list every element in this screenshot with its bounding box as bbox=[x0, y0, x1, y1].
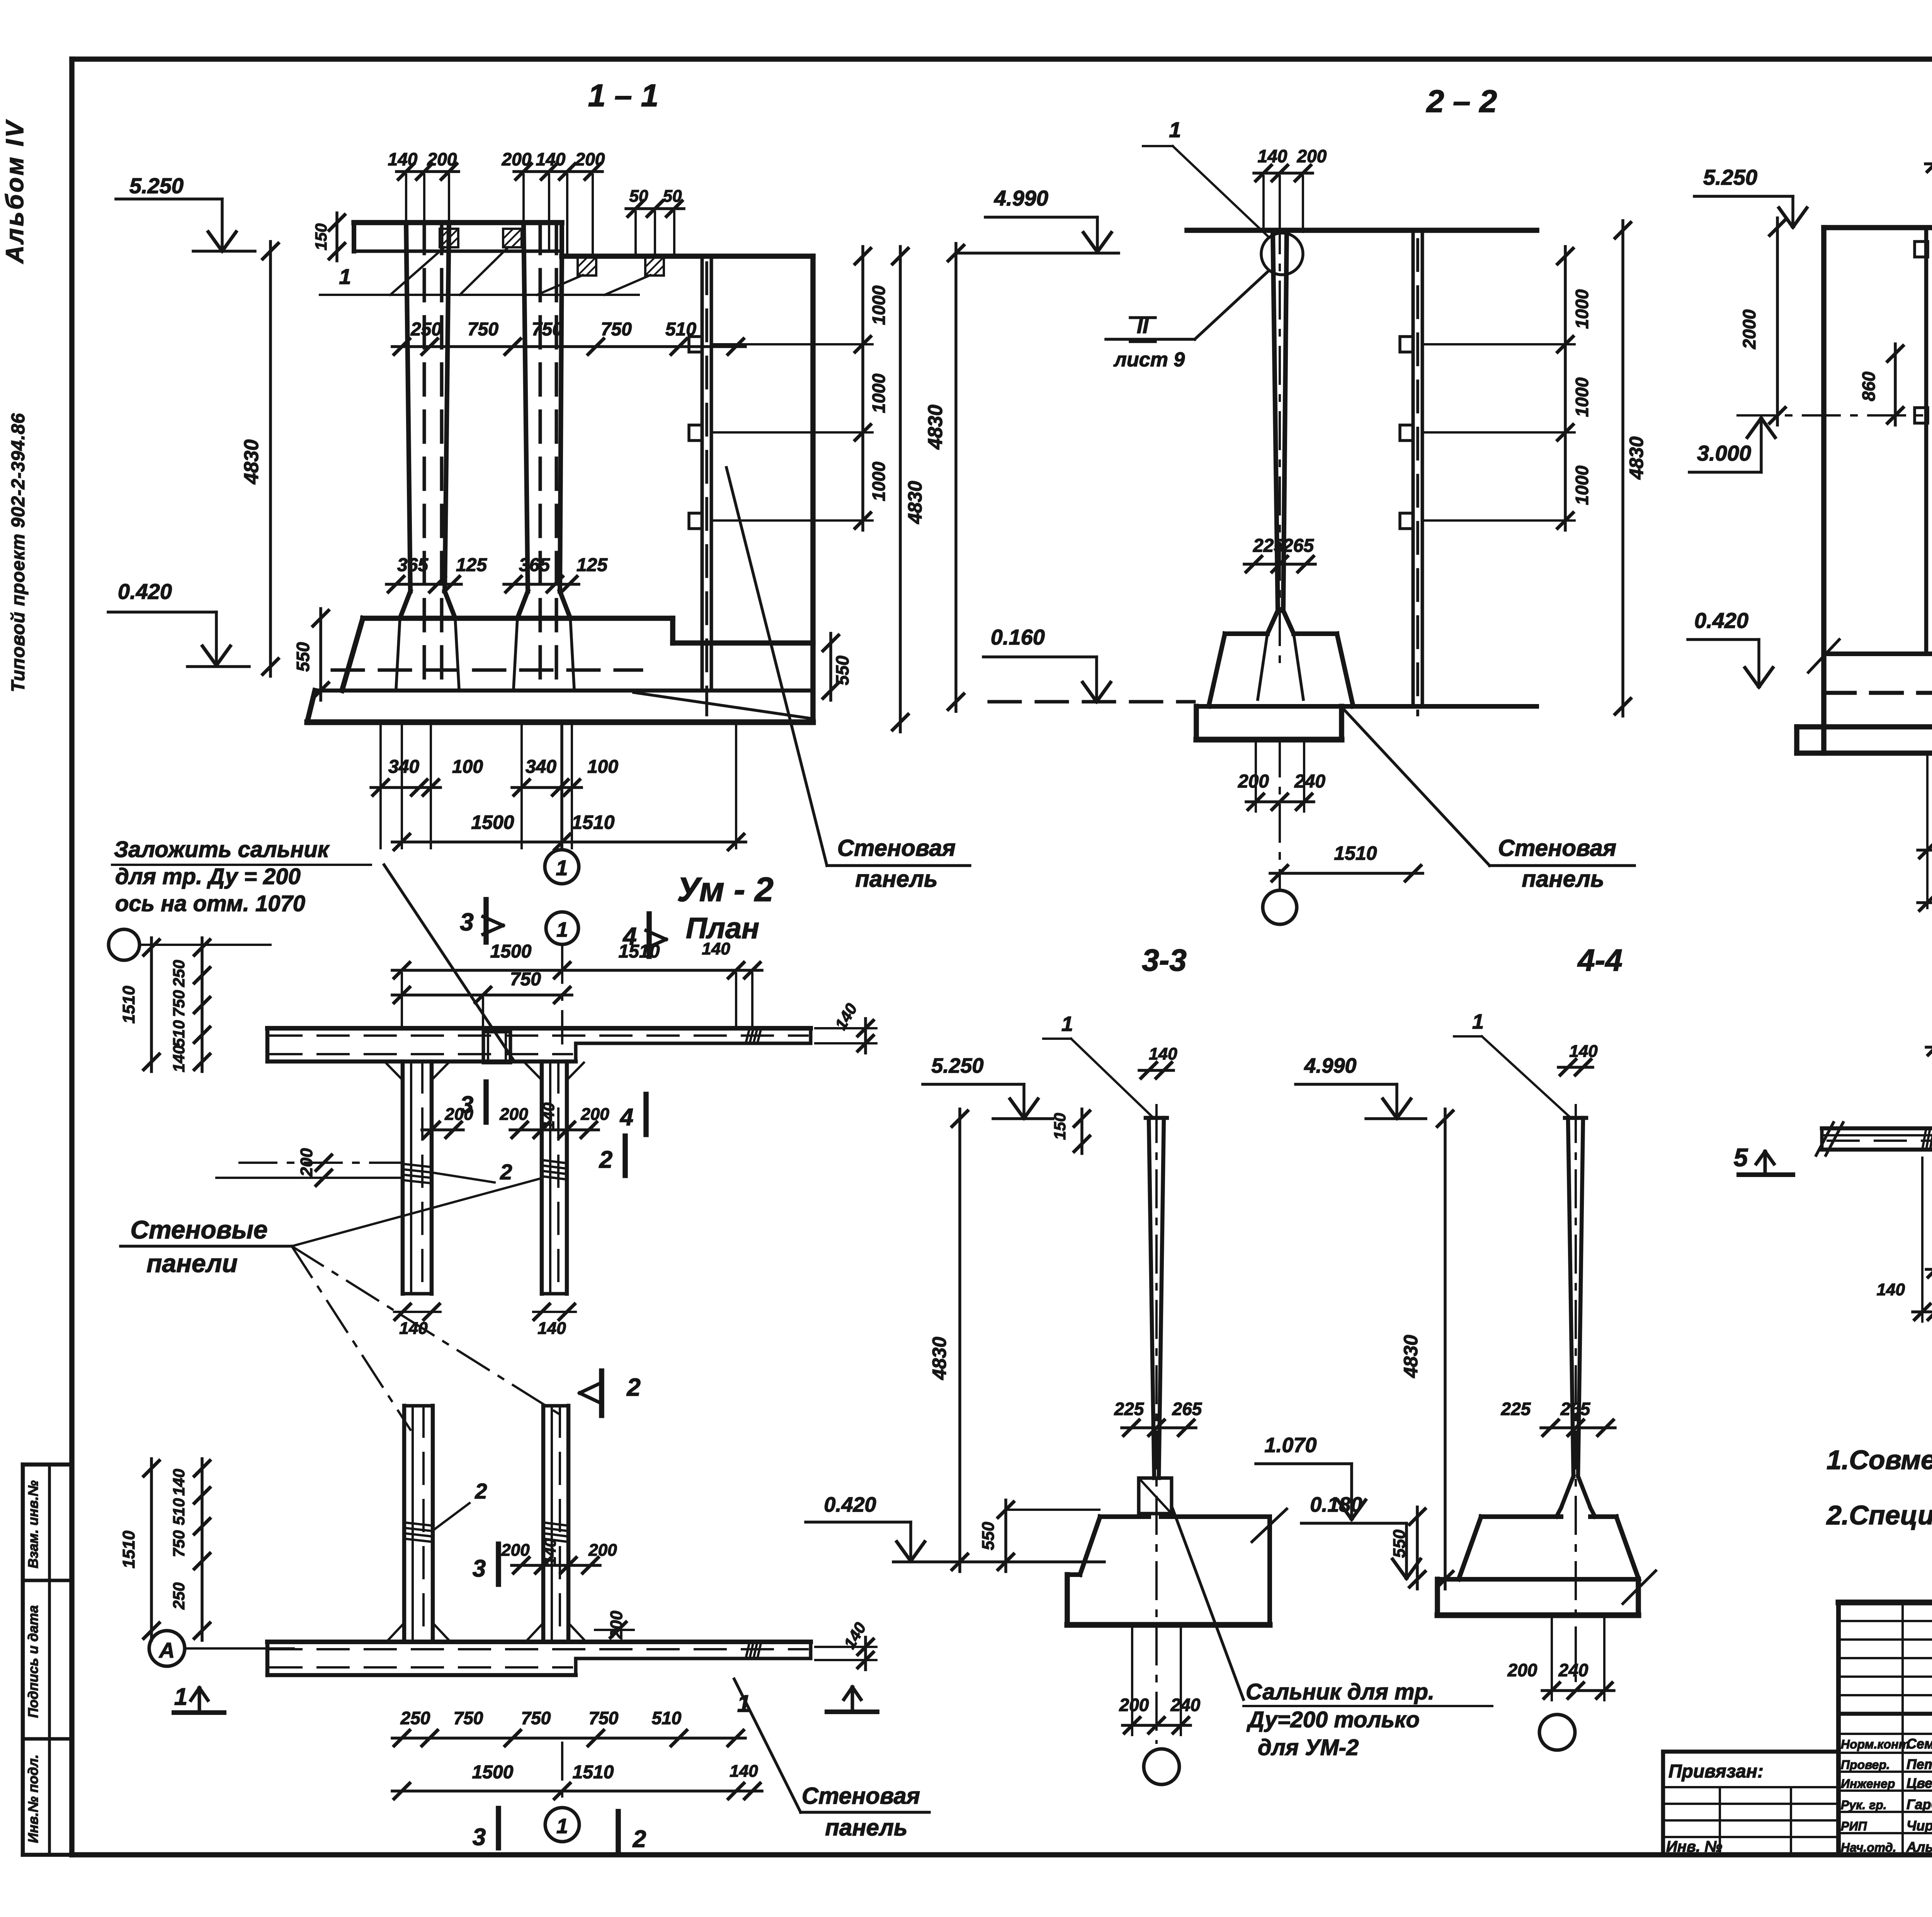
end break marks Um-5 bbox=[1816, 1123, 1833, 1155]
svg-text:Норм.конт: Норм.конт bbox=[1841, 1737, 1910, 1751]
svg-text:Чирков: Чирков bbox=[1906, 1818, 1932, 1834]
svg-text:1510: 1510 bbox=[119, 1531, 138, 1568]
svg-text:150: 150 bbox=[1051, 1113, 1069, 1140]
svg-text:4830: 4830 bbox=[924, 405, 947, 450]
svg-text:200: 200 bbox=[297, 1148, 316, 1177]
wall panel section 1-1 right bbox=[701, 256, 704, 691]
dim 140 right end Um-1 bbox=[815, 1646, 876, 1648]
svg-text:0.420: 0.420 bbox=[1694, 608, 1748, 633]
axis circle row top bbox=[109, 929, 139, 960]
level mark 0.420 section 1-1 bbox=[108, 611, 216, 614]
section marks 3 4 inside Um-2 bbox=[483, 1082, 489, 1122]
dims 140 3020 140 Um-5 bbox=[1921, 1158, 1923, 1322]
svg-text:0.160: 0.160 bbox=[991, 625, 1045, 649]
level 0.180 section 4-4 bbox=[1301, 1522, 1406, 1525]
level 4.990 section 4-4 bbox=[1296, 1083, 1397, 1086]
vertical dim 4830 section 1-1 left bbox=[269, 242, 272, 676]
svg-text:750: 750 bbox=[601, 319, 632, 340]
section mark 3 inside Um-1 bbox=[496, 1544, 501, 1584]
foot and foundation section 2-2 bbox=[1267, 611, 1278, 634]
svg-text:1000: 1000 bbox=[869, 461, 889, 501]
svg-text:для УМ-2: для УМ-2 bbox=[1258, 1735, 1359, 1760]
svg-text:4: 4 bbox=[619, 1104, 633, 1131]
svg-text:225: 225 bbox=[1114, 1399, 1145, 1419]
bottom dims Um-1 row2 bbox=[392, 1789, 762, 1793]
section marks bottom Um-1 bbox=[496, 1808, 501, 1848]
vertical dim 4830 section 2-2 bbox=[954, 243, 957, 711]
svg-text:365: 365 bbox=[519, 555, 550, 575]
svg-text:1510: 1510 bbox=[571, 811, 614, 833]
dim 550 section 1-1 right bbox=[829, 633, 832, 700]
grid lines 1000 section 1-1 bbox=[711, 343, 872, 345]
svg-text:100: 100 bbox=[452, 757, 483, 777]
left dims Um-1 bbox=[201, 1459, 204, 1640]
dim 200 Um-1 bbox=[595, 1629, 634, 1631]
column section 4-4 bbox=[1568, 1118, 1573, 1476]
svg-text:225: 225 bbox=[1501, 1399, 1531, 1419]
svg-text:4.990: 4.990 bbox=[1304, 1054, 1356, 1077]
svg-text:750: 750 bbox=[521, 1708, 551, 1728]
svg-text:Нач.отд.: Нач.отд. bbox=[1841, 1840, 1896, 1854]
outer walls section 5-5 bbox=[1824, 225, 1932, 230]
svg-text:1000: 1000 bbox=[1572, 465, 1592, 505]
Um-2 left leg bbox=[401, 1061, 405, 1294]
svg-text:200: 200 bbox=[502, 149, 532, 169]
gland box section 3-3 bbox=[1139, 1478, 1172, 1514]
column section 3-3 bbox=[1149, 1118, 1154, 1478]
svg-text:для тр. Ду = 200: для тр. Ду = 200 bbox=[115, 864, 301, 889]
svg-text:Стеновая: Стеновая bbox=[802, 1783, 920, 1809]
svg-text:Инженер: Инженер bbox=[1841, 1777, 1895, 1791]
axis circle 1 Um-1 bottom bbox=[561, 1743, 563, 1806]
svg-text:200: 200 bbox=[607, 1611, 626, 1640]
svg-text:Типовой проект 902-2-394.86: Типовой проект 902-2-394.86 bbox=[8, 413, 29, 692]
svg-text:200: 200 bbox=[580, 1105, 609, 1124]
svg-text:750: 750 bbox=[170, 1530, 188, 1557]
bottom dims Um-1 row1 bbox=[392, 1737, 745, 1740]
dims 1510 1510 Um-5 bbox=[1926, 1268, 1932, 1271]
svg-text:265: 265 bbox=[1172, 1399, 1202, 1419]
label 2 Um-2 bbox=[434, 1173, 495, 1182]
floor lines section 5-5 bbox=[1824, 651, 1932, 656]
svg-text:Альтшулер: Альтшулер bbox=[1906, 1839, 1932, 1855]
svg-text:140: 140 bbox=[539, 1102, 558, 1129]
svg-text:4830: 4830 bbox=[240, 439, 263, 485]
svg-text:265: 265 bbox=[1282, 536, 1314, 556]
svg-text:5.250: 5.250 bbox=[129, 173, 184, 198]
bottom dim row 340 100 section 1-1 bbox=[371, 786, 440, 789]
svg-text:200: 200 bbox=[427, 149, 457, 169]
svg-text:50: 50 bbox=[629, 187, 648, 206]
svg-text:2: 2 bbox=[633, 1826, 646, 1852]
svg-text:750: 750 bbox=[532, 319, 563, 340]
gland note top-left bbox=[112, 864, 371, 866]
dim row 250 750 750 750 510 section 1-1 bbox=[392, 345, 745, 348]
level 0.160 section 2-2 bbox=[983, 655, 1097, 658]
svg-text:225: 225 bbox=[1253, 536, 1284, 556]
svg-text:200: 200 bbox=[1297, 146, 1327, 166]
plan top dims 1500 1510 140 bbox=[392, 969, 762, 972]
top line section 2-2 bbox=[1187, 228, 1537, 233]
svg-text:140: 140 bbox=[1877, 1280, 1905, 1299]
svg-text:140: 140 bbox=[730, 1762, 758, 1781]
vertical dim 4830 section 4-4 bbox=[1444, 1109, 1447, 1589]
svg-text:140: 140 bbox=[537, 1319, 566, 1338]
dim 150 section 3-3 bbox=[1080, 1109, 1083, 1153]
dims 200 140 200 Um-2 bbox=[510, 1128, 599, 1131]
Um-1 bottom wall band bbox=[267, 1640, 811, 1644]
svg-text:4.990: 4.990 bbox=[994, 186, 1048, 210]
svg-text:240: 240 bbox=[1558, 1660, 1588, 1680]
svg-text:0.420: 0.420 bbox=[118, 579, 172, 604]
svg-text:Цветкова: Цветкова bbox=[1906, 1775, 1932, 1791]
svg-text:510: 510 bbox=[665, 319, 696, 340]
svg-text:Стеновые: Стеновые bbox=[130, 1215, 267, 1244]
level 5.250 section 3-3 bbox=[923, 1083, 1024, 1086]
svg-text:140: 140 bbox=[1149, 1044, 1177, 1063]
svg-text:200: 200 bbox=[1507, 1660, 1537, 1680]
top slab section 1-1 bbox=[354, 220, 562, 225]
svg-text:1: 1 bbox=[1169, 117, 1181, 142]
svg-text:550: 550 bbox=[832, 655, 852, 685]
hatch joint Um-2 strip bbox=[746, 1028, 750, 1043]
vertical dim 4830 section 3-3 bbox=[958, 1109, 961, 1572]
level 0.420 section 3-3 bbox=[806, 1521, 911, 1524]
svg-text:1: 1 bbox=[1472, 1010, 1484, 1033]
dim 50 50 section 1-1 bbox=[626, 207, 684, 210]
gland box Um-2 bbox=[483, 1032, 510, 1063]
svg-text:750: 750 bbox=[510, 969, 541, 990]
dim 550 section 1-1 left bbox=[319, 609, 322, 700]
dims 225 265 section 2-2 bbox=[1244, 563, 1315, 566]
svg-text:Привязан:: Привязан: bbox=[1668, 1761, 1764, 1782]
Um-2 top wall band bbox=[267, 1026, 811, 1031]
axis circle section 2-2 bbox=[1263, 890, 1297, 924]
dim 2000 section 5-5 bbox=[1776, 218, 1779, 425]
svg-text:1: 1 bbox=[556, 856, 568, 880]
dim 140 Um-2 leg bottoms bbox=[394, 1311, 440, 1313]
top dims 510 1000 1000 510 Um-5 bbox=[1926, 1046, 1932, 1049]
svg-text:Провер.: Провер. bbox=[1841, 1758, 1890, 1772]
foundation section 1-1 bbox=[363, 616, 673, 621]
hatch blocks Um-2 legs bbox=[403, 1164, 431, 1167]
hatch joints Um-5 bbox=[1922, 1128, 1926, 1150]
svg-text:1: 1 bbox=[1061, 1012, 1073, 1036]
label wall panel section 1-1 bbox=[827, 864, 970, 867]
svg-text:А: А bbox=[158, 1638, 175, 1662]
left stamp boxes bbox=[23, 1463, 72, 1467]
svg-text:0.180: 0.180 bbox=[1310, 1493, 1362, 1516]
title block grid bbox=[1838, 1600, 1932, 1606]
svg-text:750: 750 bbox=[468, 319, 498, 340]
svg-text:Сальник для тр.: Сальник для тр. bbox=[1246, 1679, 1434, 1704]
svg-text:550: 550 bbox=[1390, 1529, 1409, 1558]
svg-text:100: 100 bbox=[587, 757, 618, 777]
svg-text:Альбом IV: Альбом IV bbox=[1, 119, 29, 264]
svg-text:ось на отм. 1070: ось на отм. 1070 bbox=[115, 891, 305, 916]
corner chamfers Um-2 bbox=[386, 1063, 403, 1080]
svg-text:1000: 1000 bbox=[869, 285, 889, 325]
svg-text:250: 250 bbox=[400, 1708, 430, 1728]
svg-text:750: 750 bbox=[170, 990, 188, 1017]
left dims Um-2 bbox=[201, 938, 204, 1072]
svg-text:1510: 1510 bbox=[119, 986, 138, 1024]
foundation section 4-4 bbox=[1481, 1514, 1561, 1519]
svg-text:140: 140 bbox=[1569, 1042, 1598, 1061]
svg-text:140: 140 bbox=[702, 939, 730, 958]
svg-text:панель: панель bbox=[825, 1815, 907, 1840]
dim 140 section 4-4 bbox=[1558, 1066, 1593, 1069]
svg-text:1000: 1000 bbox=[869, 373, 889, 413]
svg-text:Инв.№ подл.: Инв.№ подл. bbox=[25, 1754, 41, 1843]
section mark 2 top right Um-1 bbox=[622, 1136, 628, 1175]
dims 225 265 section 3-3 bbox=[1122, 1426, 1196, 1429]
svg-text:Стеновая: Стеновая bbox=[1498, 835, 1616, 861]
svg-text:Заложить сальник: Заложить сальник bbox=[114, 837, 330, 862]
svg-text:140: 140 bbox=[399, 1319, 428, 1338]
level 5.250 section 5-5 bbox=[1694, 195, 1793, 198]
svg-text:Стеновая: Стеновая bbox=[837, 835, 956, 861]
svg-text:4830: 4830 bbox=[1626, 436, 1647, 480]
Um-1 left leg bbox=[402, 1406, 406, 1642]
svg-text:Ум - 2: Ум - 2 bbox=[677, 870, 774, 908]
anchor squares section 1-1 bbox=[440, 229, 458, 247]
section mark 4 top bbox=[646, 914, 652, 956]
foot section 4-4 bbox=[1561, 1476, 1573, 1508]
svg-text:лист 9: лист 9 bbox=[1113, 349, 1185, 371]
svg-text:3.000: 3.000 bbox=[1697, 441, 1751, 465]
level 1.070 section 3-3 bbox=[1256, 1462, 1352, 1465]
svg-text:200: 200 bbox=[501, 1541, 530, 1560]
svg-text:200: 200 bbox=[1238, 771, 1269, 792]
svg-text:250: 250 bbox=[170, 1582, 188, 1610]
axis circle section 4-4 bbox=[1539, 1715, 1575, 1750]
svg-text:250: 250 bbox=[410, 319, 442, 340]
svg-text:5.250: 5.250 bbox=[1703, 165, 1757, 189]
svg-text:200: 200 bbox=[1119, 1695, 1149, 1715]
svg-text:панели: панели bbox=[146, 1249, 238, 1277]
detail circle II section 2-2 bbox=[1261, 233, 1303, 275]
axis circle section 3-3 bbox=[1144, 1749, 1179, 1784]
svg-text:150: 150 bbox=[312, 223, 330, 250]
hatch blocks Um-1 legs bbox=[404, 1522, 432, 1526]
bottom dim row 1500 1510 section 1-1 bbox=[392, 840, 746, 844]
leader 1 section 3-3 bbox=[1043, 1038, 1071, 1040]
svg-text:750: 750 bbox=[454, 1708, 483, 1728]
svg-text:Гарбуз: Гарбуз bbox=[1906, 1796, 1932, 1812]
dims 200 140 200 Um-1 bbox=[512, 1564, 600, 1567]
svg-text:340: 340 bbox=[388, 757, 419, 777]
gland note section 3-3 bbox=[1173, 1509, 1243, 1699]
wall column B section 1-1 bbox=[524, 223, 528, 591]
svg-text:340: 340 bbox=[526, 757, 556, 777]
Um-1 right leg bbox=[541, 1406, 546, 1642]
wall column A section 1-1 bbox=[406, 223, 410, 591]
label wall panel section 2-2 bbox=[1490, 864, 1634, 867]
leader 1 section 4-4 bbox=[1454, 1035, 1482, 1038]
svg-text:240: 240 bbox=[1294, 771, 1325, 792]
svg-text:510: 510 bbox=[170, 1020, 188, 1047]
svg-text:240: 240 bbox=[1170, 1695, 1201, 1715]
svg-text:1: 1 bbox=[556, 1815, 568, 1838]
column section 2-2 bbox=[1273, 230, 1278, 611]
svg-text:140: 140 bbox=[170, 1469, 188, 1496]
svg-text:4830: 4830 bbox=[1400, 1335, 1422, 1378]
svg-text:Рук. гр.: Рук. гр. bbox=[1841, 1798, 1887, 1812]
svg-text:1500: 1500 bbox=[472, 1762, 514, 1783]
svg-text:Инв. №: Инв. № bbox=[1666, 1838, 1722, 1855]
svg-text:2.Спецификация элементов: 2.Спецификация элементов см.л. КЖ-13,14. bbox=[1826, 1500, 1932, 1530]
dims 225 265 section 4-4 bbox=[1541, 1426, 1615, 1429]
svg-text:1 – 1: 1 – 1 bbox=[588, 78, 658, 113]
level 3.000 section 5-5 bbox=[1689, 471, 1761, 474]
svg-text:Ду=200 только: Ду=200 только bbox=[1246, 1707, 1420, 1732]
dim 860 section 5-5 bbox=[1894, 344, 1897, 425]
grid lines 1000 section 2-2 bbox=[1422, 343, 1575, 345]
svg-text:1500: 1500 bbox=[471, 811, 514, 833]
svg-text:1: 1 bbox=[339, 264, 351, 289]
svg-text:1510: 1510 bbox=[573, 1762, 614, 1783]
svg-text:140: 140 bbox=[388, 149, 418, 169]
svg-text:1: 1 bbox=[174, 1684, 187, 1710]
svg-text:125: 125 bbox=[456, 555, 487, 575]
svg-text:140: 140 bbox=[536, 149, 566, 169]
svg-text:200: 200 bbox=[575, 149, 605, 169]
dim 140 right end Um-2 bbox=[815, 1027, 876, 1029]
wall panel section 2-2 bbox=[1412, 230, 1415, 706]
svg-text:3: 3 bbox=[460, 908, 474, 936]
svg-text:4830: 4830 bbox=[904, 481, 926, 524]
svg-text:1: 1 bbox=[737, 1691, 750, 1717]
section mark 2 Um-1 top bbox=[599, 1371, 604, 1415]
aux table privyazan bbox=[1663, 1750, 1838, 1754]
bottom dims 200 240 section 4-4 bbox=[1542, 1689, 1614, 1692]
svg-text:510: 510 bbox=[652, 1708, 682, 1728]
section mark 3 top bbox=[483, 900, 489, 942]
svg-text:1000: 1000 bbox=[1572, 377, 1592, 417]
sheet frame bbox=[72, 56, 1932, 62]
corner chamfers Um-1 bbox=[387, 1623, 404, 1641]
svg-text:Взам. инв.№: Взам. инв.№ bbox=[25, 1480, 41, 1568]
svg-text:140: 140 bbox=[541, 1538, 559, 1565]
svg-text:1.070: 1.070 bbox=[1264, 1434, 1316, 1457]
svg-text:1000: 1000 bbox=[1572, 289, 1592, 329]
svg-text:3: 3 bbox=[473, 1555, 486, 1582]
svg-text:1: 1 bbox=[556, 918, 568, 941]
svg-text:140: 140 bbox=[1258, 146, 1287, 166]
svg-text:2: 2 bbox=[500, 1160, 512, 1184]
Um-2 right leg bbox=[540, 1061, 544, 1294]
svg-text:панель: панель bbox=[855, 866, 937, 892]
leader 1 section 2-2 bbox=[1173, 146, 1269, 238]
vertical dim 4830 section 1-1 right bbox=[899, 247, 902, 732]
section marks 1 bottom bbox=[174, 1710, 224, 1715]
svg-text:1510: 1510 bbox=[1334, 842, 1377, 864]
svg-text:860: 860 bbox=[1859, 371, 1879, 401]
hatch joint Um-1 strip bbox=[746, 1642, 750, 1658]
svg-text:Семенова: Семенова bbox=[1906, 1736, 1932, 1752]
svg-text:2: 2 bbox=[474, 1479, 487, 1503]
svg-text:3-3: 3-3 bbox=[1142, 943, 1187, 977]
svg-text:4: 4 bbox=[622, 922, 637, 950]
top dims 510 1000 1000 510 section 5-5 bbox=[1925, 162, 1932, 165]
svg-text:1500: 1500 bbox=[490, 941, 532, 962]
svg-text:5.250: 5.250 bbox=[931, 1054, 983, 1077]
svg-text:РИП: РИП bbox=[1841, 1819, 1867, 1833]
leaders to walls bbox=[292, 1179, 540, 1246]
axis circle 1 plan top bbox=[546, 912, 578, 944]
dim 150 section 1-1 left bbox=[335, 213, 338, 261]
svg-text:200: 200 bbox=[499, 1105, 528, 1124]
dim row 365 125 365 125 section 1-1 bbox=[386, 583, 461, 586]
svg-text:250: 250 bbox=[170, 960, 188, 987]
svg-text:50: 50 bbox=[663, 187, 682, 206]
svg-text:140: 140 bbox=[170, 1045, 188, 1072]
foundation section 3-3 bbox=[1100, 1514, 1149, 1519]
svg-text:Подпись и дата: Подпись и дата bbox=[25, 1605, 41, 1718]
section marks 5 Um-5 bbox=[1739, 1172, 1793, 1177]
axis circle A Um-1 bbox=[149, 1631, 185, 1666]
svg-text:5: 5 bbox=[1734, 1143, 1748, 1172]
svg-text:265: 265 bbox=[1560, 1399, 1591, 1419]
svg-text:550: 550 bbox=[293, 642, 313, 672]
svg-text:2: 2 bbox=[599, 1146, 612, 1173]
top dimension row 140 200 / 200 140 200 section 1-1 bbox=[396, 170, 459, 173]
label wall panels Um-2/Um-1 bbox=[121, 1245, 292, 1248]
label wall panel bottom bbox=[801, 1811, 929, 1814]
level 4.990 section 2-2 bbox=[985, 216, 1097, 219]
dim 200 leaders Um-2 bbox=[240, 1162, 403, 1164]
svg-text:750: 750 bbox=[589, 1708, 619, 1728]
svg-text:200: 200 bbox=[588, 1541, 617, 1560]
wall band Um-5 bbox=[1822, 1126, 1932, 1131]
leader with label 1 section 1-1 bbox=[320, 294, 639, 296]
svg-text:0.420: 0.420 bbox=[824, 1493, 876, 1516]
svg-text:365: 365 bbox=[397, 555, 429, 575]
inner wall lines section 5-5 bbox=[1924, 228, 1929, 654]
svg-text:510: 510 bbox=[170, 1498, 188, 1525]
bottom dims section 5-5 bbox=[1926, 753, 1929, 908]
svg-text:2: 2 bbox=[626, 1373, 641, 1401]
svg-text:3: 3 bbox=[473, 1824, 486, 1851]
dim 550 section 3-3 bbox=[1006, 1509, 1099, 1511]
svg-text:550: 550 bbox=[979, 1522, 998, 1550]
axis circle 1 section 1-1 bbox=[560, 725, 563, 849]
svg-text:2000: 2000 bbox=[1739, 309, 1759, 349]
level 0.420 section 5-5 bbox=[1688, 638, 1759, 641]
svg-text:2 – 2: 2 – 2 bbox=[1426, 84, 1497, 119]
svg-text:3: 3 bbox=[460, 1092, 473, 1118]
vertical dim 4830 section 2-2 right bbox=[1621, 221, 1624, 716]
dim 550 section 4-4 bbox=[1416, 1507, 1419, 1589]
svg-text:II: II bbox=[1137, 315, 1149, 338]
dim 140 section 3-3 bbox=[1139, 1069, 1173, 1072]
axis line section 5-5 bbox=[1738, 414, 1932, 417]
svg-text:125: 125 bbox=[577, 555, 608, 575]
top dims 140 200 section 2-2 bbox=[1254, 172, 1313, 175]
svg-text:4830: 4830 bbox=[929, 1337, 950, 1380]
svg-text:Петропавловская: Петропавловская bbox=[1906, 1756, 1932, 1772]
label 2 Um-1 bbox=[434, 1503, 469, 1529]
bottom dims section 2-2 bbox=[1246, 800, 1314, 803]
bottom dims 200 240 section 3-3 bbox=[1122, 1724, 1190, 1727]
svg-text:4-4: 4-4 bbox=[1577, 943, 1622, 977]
svg-text:панель: панель bbox=[1522, 866, 1604, 892]
svg-text:1.Совместно с данным см: 1.Совместно с данным см. л.л. КЖ-13,14,1… bbox=[1827, 1445, 1932, 1475]
level mark 5.250 section 1-1 bbox=[116, 197, 222, 201]
